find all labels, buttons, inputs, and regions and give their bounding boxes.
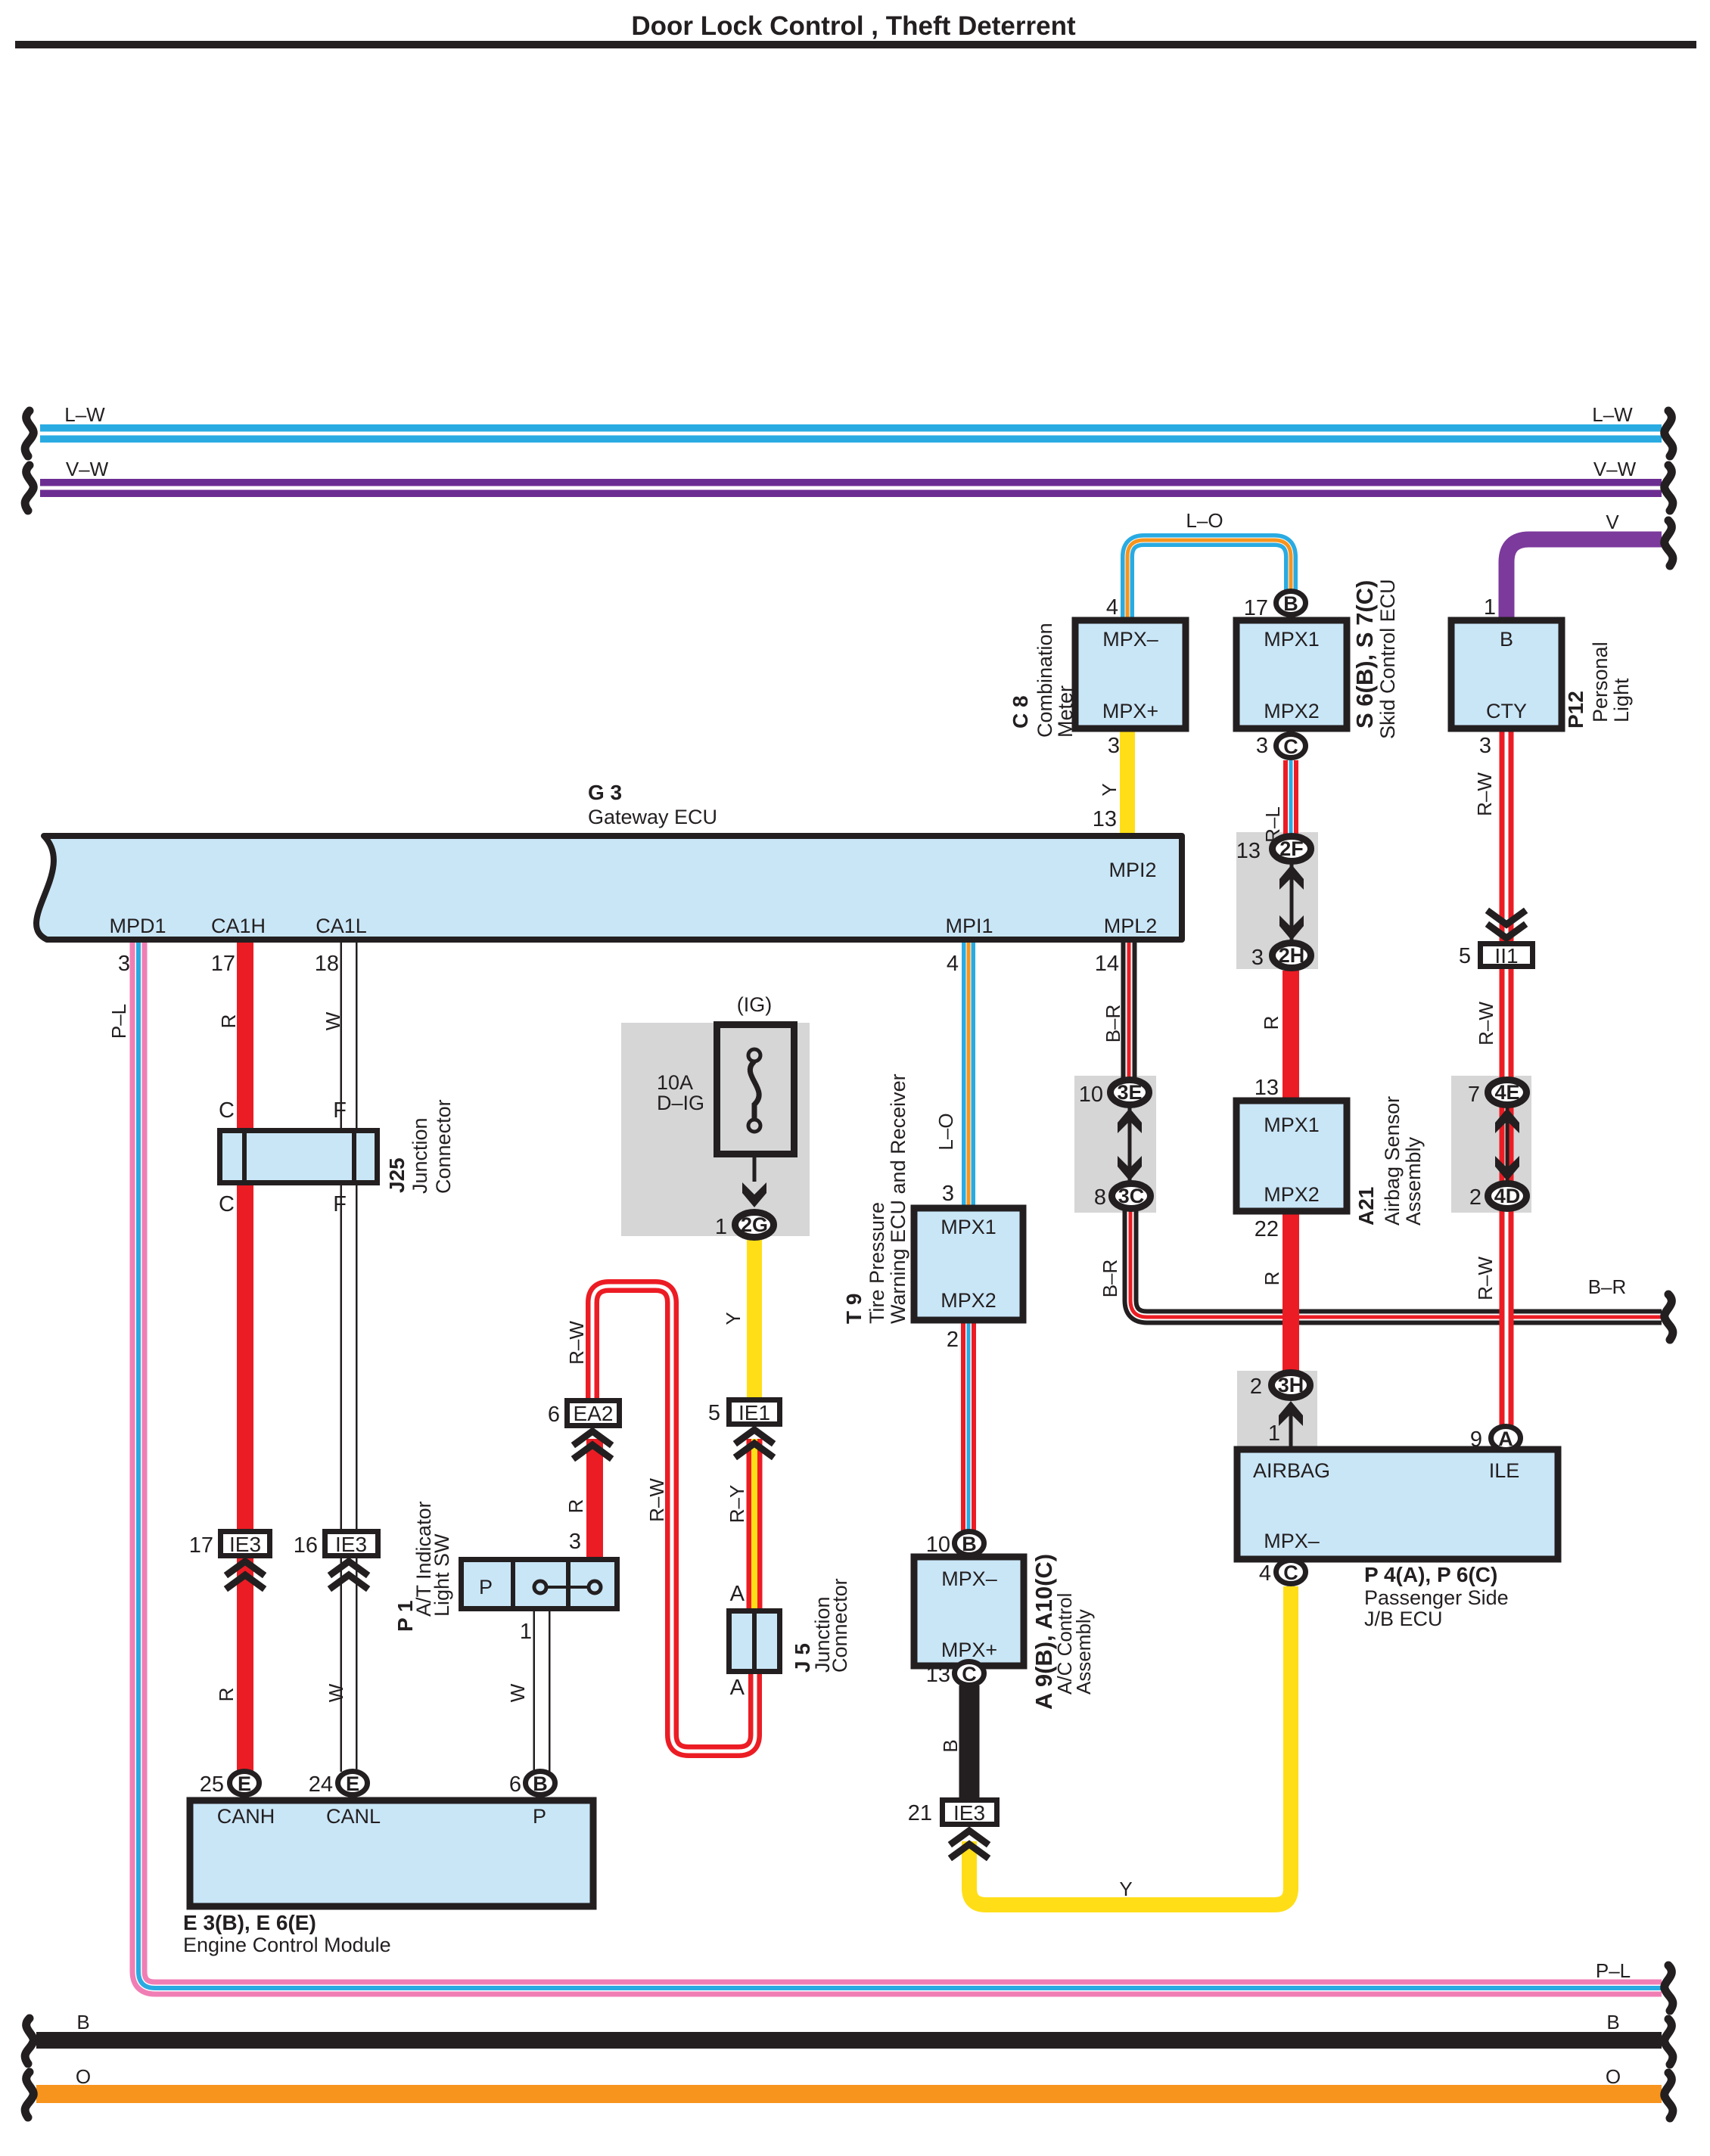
svg-text:R–W: R–W bbox=[1474, 1257, 1497, 1300]
svg-text:Airbag Sensor: Airbag Sensor bbox=[1381, 1096, 1404, 1226]
svg-text:W: W bbox=[322, 1011, 344, 1030]
svg-text:IE3: IE3 bbox=[953, 1801, 985, 1825]
svg-text:17: 17 bbox=[211, 952, 235, 976]
svg-text:18: 18 bbox=[315, 952, 339, 976]
svg-text:C: C bbox=[219, 1098, 235, 1123]
svg-text:P: P bbox=[533, 1805, 546, 1828]
svg-text:J25: J25 bbox=[385, 1157, 409, 1193]
svg-text:IE1: IE1 bbox=[738, 1401, 770, 1424]
svg-text:MPX1: MPX1 bbox=[1264, 628, 1320, 651]
svg-text:2H: 2H bbox=[1279, 944, 1305, 967]
svg-text:P12: P12 bbox=[1564, 691, 1587, 729]
svg-text:MPX+: MPX+ bbox=[1102, 700, 1158, 722]
svg-text:CANL: CANL bbox=[326, 1805, 381, 1828]
svg-text:CANH: CANH bbox=[217, 1805, 275, 1828]
svg-text:CTY: CTY bbox=[1486, 700, 1527, 722]
svg-text:Engine Control Module: Engine Control Module bbox=[183, 1934, 391, 1956]
svg-text:Junction: Junction bbox=[409, 1117, 431, 1194]
svg-text:17: 17 bbox=[1244, 596, 1268, 620]
svg-text:7: 7 bbox=[1468, 1083, 1480, 1107]
svg-text:E: E bbox=[238, 1772, 251, 1795]
svg-text:MPI1: MPI1 bbox=[945, 915, 993, 937]
svg-text:B: B bbox=[533, 1772, 548, 1795]
svg-text:B: B bbox=[1500, 628, 1513, 651]
svg-text:8: 8 bbox=[1094, 1185, 1106, 1210]
svg-text:5: 5 bbox=[708, 1401, 720, 1425]
svg-text:B: B bbox=[962, 1533, 977, 1555]
svg-text:6: 6 bbox=[548, 1403, 560, 1427]
svg-text:Combination: Combination bbox=[1034, 623, 1056, 738]
svg-text:II1: II1 bbox=[1494, 944, 1518, 968]
svg-text:R: R bbox=[1261, 1272, 1283, 1286]
svg-text:Y: Y bbox=[1098, 783, 1121, 796]
svg-text:R: R bbox=[564, 1499, 587, 1514]
svg-text:CA1H: CA1H bbox=[211, 915, 266, 937]
svg-text:R–W: R–W bbox=[565, 1321, 588, 1365]
svg-text:2: 2 bbox=[1250, 1375, 1262, 1399]
svg-text:P–L: P–L bbox=[1596, 1959, 1631, 1982]
svg-text:E: E bbox=[346, 1772, 359, 1795]
svg-text:MPX–: MPX– bbox=[941, 1567, 997, 1590]
svg-text:Light SW: Light SW bbox=[431, 1533, 453, 1617]
svg-text:Y: Y bbox=[722, 1312, 745, 1325]
svg-text:13: 13 bbox=[926, 1663, 950, 1687]
svg-text:L–W: L–W bbox=[1592, 403, 1633, 426]
svg-text:W: W bbox=[325, 1683, 347, 1702]
svg-text:21: 21 bbox=[908, 1801, 932, 1825]
svg-text:B–R: B–R bbox=[1102, 1005, 1124, 1043]
svg-text:Y: Y bbox=[1119, 1878, 1132, 1900]
svg-text:S 6(B), S 7(C): S 6(B), S 7(C) bbox=[1351, 580, 1378, 729]
svg-text:MPX1: MPX1 bbox=[940, 1216, 996, 1238]
svg-text:CA1L: CA1L bbox=[316, 915, 367, 937]
svg-text:V–W: V–W bbox=[1593, 458, 1637, 480]
svg-text:A21: A21 bbox=[1354, 1187, 1378, 1226]
svg-text:T 9: T 9 bbox=[842, 1294, 866, 1324]
svg-text:Connector: Connector bbox=[432, 1099, 455, 1194]
svg-text:Assembly: Assembly bbox=[1072, 1609, 1095, 1695]
svg-text:V: V bbox=[1606, 511, 1619, 533]
svg-text:L–O: L–O bbox=[1186, 509, 1223, 532]
svg-text:5: 5 bbox=[1459, 944, 1471, 968]
svg-text:Light: Light bbox=[1610, 678, 1633, 722]
svg-text:B–R: B–R bbox=[1099, 1260, 1121, 1298]
svg-text:3: 3 bbox=[1256, 734, 1268, 758]
svg-text:MPX+: MPX+ bbox=[941, 1639, 997, 1661]
svg-text:22: 22 bbox=[1255, 1217, 1279, 1241]
svg-text:1: 1 bbox=[520, 1620, 532, 1644]
svg-text:10: 10 bbox=[1079, 1083, 1103, 1107]
svg-text:P: P bbox=[479, 1576, 493, 1598]
svg-text:Passenger Side: Passenger Side bbox=[1364, 1586, 1509, 1609]
svg-text:W: W bbox=[506, 1683, 529, 1702]
svg-text:L–W: L–W bbox=[64, 403, 105, 426]
svg-text:C: C bbox=[219, 1192, 235, 1216]
svg-text:P–L: P–L bbox=[107, 1004, 130, 1039]
svg-text:4D: 4D bbox=[1494, 1185, 1521, 1207]
svg-text:MPX–: MPX– bbox=[1102, 628, 1158, 651]
svg-text:4E: 4E bbox=[1494, 1081, 1519, 1104]
svg-text:4: 4 bbox=[1259, 1561, 1271, 1586]
svg-text:14: 14 bbox=[1095, 952, 1119, 976]
svg-text:MPX–: MPX– bbox=[1264, 1530, 1320, 1552]
svg-text:4: 4 bbox=[1106, 595, 1118, 620]
svg-text:Tire Pressure: Tire Pressure bbox=[866, 1202, 888, 1324]
svg-text:A: A bbox=[730, 1676, 745, 1700]
svg-text:R–W: R–W bbox=[1475, 1002, 1497, 1045]
svg-text:17: 17 bbox=[189, 1533, 213, 1558]
svg-text:10A: 10A bbox=[657, 1071, 693, 1094]
svg-text:R–W: R–W bbox=[645, 1478, 668, 1522]
svg-text:C: C bbox=[1283, 735, 1298, 758]
svg-text:MPX1: MPX1 bbox=[1264, 1114, 1320, 1136]
svg-text:3C: 3C bbox=[1118, 1185, 1145, 1207]
svg-text:3E: 3E bbox=[1117, 1081, 1142, 1104]
svg-text:Assembly: Assembly bbox=[1402, 1136, 1425, 1226]
svg-text:MPX2: MPX2 bbox=[940, 1289, 996, 1312]
svg-text:A: A bbox=[730, 1582, 745, 1606]
svg-text:D–IG: D–IG bbox=[657, 1092, 704, 1114]
svg-text:Door Lock Control , Theft Dete: Door Lock Control , Theft Deterrent bbox=[631, 11, 1076, 41]
svg-text:A: A bbox=[1498, 1427, 1513, 1450]
svg-text:MPL2: MPL2 bbox=[1104, 915, 1158, 937]
svg-text:10: 10 bbox=[926, 1533, 950, 1557]
svg-text:B: B bbox=[1283, 592, 1298, 615]
svg-text:3: 3 bbox=[942, 1182, 954, 1206]
svg-text:V–W: V–W bbox=[66, 458, 109, 480]
svg-text:B–R: B–R bbox=[1588, 1275, 1627, 1298]
svg-text:3: 3 bbox=[1251, 946, 1264, 970]
svg-text:2G: 2G bbox=[741, 1213, 768, 1236]
svg-text:B: B bbox=[939, 1739, 962, 1752]
svg-text:Skid Control ECU: Skid Control ECU bbox=[1376, 579, 1399, 739]
svg-text:R–Y: R–Y bbox=[726, 1485, 748, 1524]
svg-text:R–W: R–W bbox=[1473, 772, 1496, 816]
svg-text:3: 3 bbox=[1108, 734, 1120, 758]
svg-text:9: 9 bbox=[1470, 1427, 1482, 1452]
svg-text:C: C bbox=[962, 1663, 977, 1685]
svg-text:2: 2 bbox=[947, 1328, 959, 1352]
svg-text:AIRBAG: AIRBAG bbox=[1253, 1459, 1330, 1482]
svg-text:Connector: Connector bbox=[829, 1578, 851, 1673]
svg-text:24: 24 bbox=[309, 1772, 333, 1797]
svg-text:B: B bbox=[76, 2011, 89, 2033]
svg-text:3: 3 bbox=[1479, 734, 1491, 758]
svg-text:13: 13 bbox=[1093, 807, 1117, 831]
svg-text:1: 1 bbox=[1484, 595, 1496, 620]
svg-text:1: 1 bbox=[1268, 1421, 1280, 1446]
svg-text:B: B bbox=[1606, 2011, 1619, 2033]
svg-text:L–O: L–O bbox=[934, 1113, 957, 1150]
svg-text:G 3: G 3 bbox=[588, 781, 622, 804]
svg-text:C 8: C 8 bbox=[1009, 695, 1032, 729]
svg-text:EA2: EA2 bbox=[574, 1402, 614, 1425]
svg-text:R: R bbox=[1260, 1016, 1282, 1030]
svg-text:1: 1 bbox=[715, 1215, 727, 1239]
svg-text:P 4(A), P 6(C): P 4(A), P 6(C) bbox=[1364, 1563, 1497, 1586]
svg-text:3: 3 bbox=[118, 952, 130, 976]
svg-text:6: 6 bbox=[509, 1772, 521, 1797]
svg-text:R–L: R–L bbox=[1261, 806, 1284, 843]
svg-text:IE3: IE3 bbox=[335, 1533, 367, 1556]
svg-text:2: 2 bbox=[1469, 1185, 1481, 1210]
svg-text:R: R bbox=[217, 1014, 240, 1029]
svg-text:25: 25 bbox=[200, 1772, 224, 1797]
svg-text:13: 13 bbox=[1236, 839, 1261, 863]
svg-text:E 3(B), E 6(E): E 3(B), E 6(E) bbox=[183, 1911, 316, 1934]
svg-text:13: 13 bbox=[1255, 1076, 1279, 1100]
svg-text:3: 3 bbox=[569, 1530, 581, 1554]
svg-text:O: O bbox=[76, 2065, 91, 2088]
svg-text:MPI2: MPI2 bbox=[1108, 859, 1156, 881]
svg-text:IE3: IE3 bbox=[229, 1533, 261, 1556]
svg-text:4: 4 bbox=[947, 952, 959, 976]
svg-text:16: 16 bbox=[294, 1533, 318, 1558]
svg-text:ILE: ILE bbox=[1489, 1459, 1520, 1482]
svg-text:MPX2: MPX2 bbox=[1264, 1183, 1320, 1206]
svg-text:3H: 3H bbox=[1278, 1374, 1304, 1396]
svg-text:MPD1: MPD1 bbox=[109, 915, 166, 937]
svg-text:F: F bbox=[333, 1098, 347, 1123]
svg-text:R: R bbox=[215, 1688, 238, 1702]
svg-text:(IG): (IG) bbox=[737, 993, 773, 1016]
svg-text:Warning ECU and Receiver: Warning ECU and Receiver bbox=[887, 1073, 909, 1324]
svg-text:F: F bbox=[333, 1192, 347, 1216]
svg-text:Personal: Personal bbox=[1589, 642, 1612, 722]
svg-text:Gateway ECU: Gateway ECU bbox=[588, 806, 717, 828]
svg-text:O: O bbox=[1606, 2065, 1621, 2088]
svg-text:C: C bbox=[1283, 1561, 1298, 1584]
svg-text:MPX2: MPX2 bbox=[1264, 700, 1320, 722]
svg-text:Meter: Meter bbox=[1054, 685, 1077, 738]
svg-text:J/B ECU: J/B ECU bbox=[1364, 1608, 1443, 1630]
